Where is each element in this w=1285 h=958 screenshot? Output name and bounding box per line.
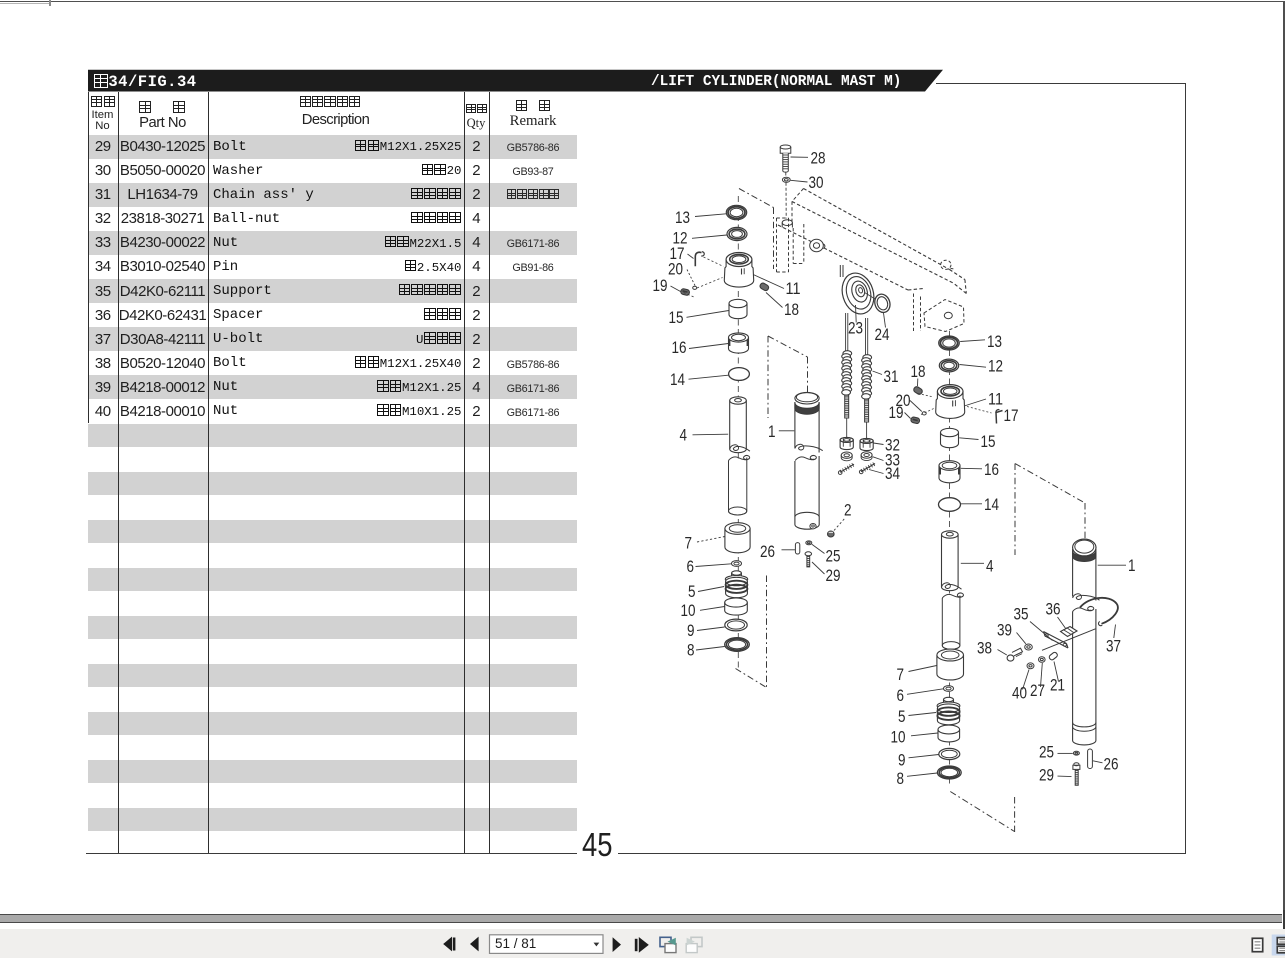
ring 6 left — [687, 558, 742, 576]
top window separator line — [0, 1, 1285, 3]
piston 5 right — [898, 697, 960, 726]
pin 19 right — [910, 417, 920, 425]
washer 39 — [997, 622, 1032, 651]
svg-text:26: 26 — [760, 543, 775, 561]
nut 40 — [1012, 663, 1034, 703]
svg-text:16: 16 — [984, 461, 999, 479]
bolt 28 — [780, 145, 825, 172]
pin 18 right — [911, 363, 926, 395]
ring 25 far right — [1039, 744, 1079, 762]
seal 9 left — [687, 619, 747, 640]
label 33 — [873, 452, 900, 470]
ring 10 right — [891, 725, 960, 746]
pin 34 left — [838, 463, 854, 474]
chain 31 right — [862, 318, 872, 440]
svg-text:4: 4 — [986, 558, 994, 576]
svg-text:26: 26 — [1104, 756, 1119, 774]
washer 12 right — [939, 358, 1003, 376]
axis left assembly — [737, 196, 739, 668]
oring 14 left — [670, 368, 749, 389]
single page layout icon — [1252, 938, 1262, 951]
svg-text:13: 13 — [987, 333, 1002, 351]
mast beam right end — [950, 270, 967, 294]
cup 7 left — [685, 523, 751, 553]
svg-text:19: 19 — [889, 404, 904, 422]
svg-text:35: 35 — [1014, 606, 1029, 624]
cup 16 right — [939, 461, 999, 483]
svg-text:14: 14 — [670, 371, 685, 389]
seal 8 right — [897, 766, 962, 788]
phantom boundary right top — [1015, 464, 1085, 556]
svg-text:4: 4 — [680, 427, 688, 445]
svg-text:8: 8 — [687, 642, 695, 660]
svg-text:36: 36 — [1046, 601, 1061, 619]
nut 32 right — [860, 438, 873, 450]
btn prev view (colored) — [660, 937, 671, 946]
piston rod 4 left — [680, 397, 750, 515]
svg-text:38: 38 — [977, 640, 992, 658]
svg-text:5: 5 — [898, 708, 906, 726]
mast beam front top edge — [792, 202, 954, 284]
mast beam top edge — [804, 189, 950, 270]
seal 8 left — [687, 638, 749, 660]
pin 20 right — [922, 412, 926, 415]
pin 34 right — [859, 462, 875, 473]
svg-text:24: 24 — [875, 326, 890, 344]
mast beam left end corner — [792, 189, 804, 222]
pin 18 left — [759, 282, 799, 319]
bolt 38 — [977, 640, 1023, 662]
mast beam front bolt — [810, 239, 825, 251]
plug 2 — [828, 502, 852, 538]
cotter pin 17 left — [670, 245, 705, 266]
svg-text:21: 21 — [1050, 677, 1065, 695]
label 19 right — [889, 404, 911, 422]
clamp 36 — [1046, 601, 1078, 637]
btn prev page — [470, 937, 479, 952]
svg-text:29: 29 — [826, 567, 841, 585]
bearing 13 left — [675, 205, 747, 227]
svg-text:6: 6 — [897, 687, 905, 705]
banner left text 图34/FIG.34 — [93, 73, 197, 91]
phantom boundary center — [768, 336, 808, 418]
mast beam front bottom edge — [778, 225, 923, 290]
svg-text:9: 9 — [898, 752, 906, 770]
phantom boundary bottom — [950, 792, 1014, 833]
svg-text:18: 18 — [784, 301, 799, 319]
seal 9 right — [898, 748, 960, 769]
svg-text:29: 29 — [1039, 767, 1054, 785]
chain anchor — [840, 265, 843, 277]
phantom line top left — [739, 189, 774, 270]
svg-text:10: 10 — [891, 729, 906, 747]
page frame lines — [936, 83, 1186, 84]
bolt 29 center — [805, 552, 841, 585]
svg-text:15: 15 — [981, 433, 996, 451]
pin 21 — [1048, 651, 1065, 694]
btn last page — [635, 939, 638, 951]
washer 33 right — [861, 452, 872, 461]
washer 12 left — [673, 227, 748, 247]
cup 7 right — [897, 649, 964, 684]
svg-text:18: 18 — [911, 363, 926, 381]
svg-text:37: 37 — [1106, 638, 1121, 656]
svg-text:51 / 81: 51 / 81 — [495, 936, 536, 951]
mast beam boss — [941, 260, 955, 270]
bushing 15 right — [941, 428, 996, 451]
svg-text:20: 20 — [668, 261, 683, 279]
label 20 right — [896, 392, 922, 412]
svg-text:7: 7 — [685, 535, 693, 553]
header column 3 — [297, 95, 363, 109]
support 35 — [1014, 606, 1096, 651]
svg-text:40: 40 — [1012, 685, 1027, 703]
svg-text:39: 39 — [997, 622, 1012, 640]
svg-text:15: 15 — [669, 309, 684, 327]
nut 11 left — [724, 253, 800, 299]
pin 19 left — [680, 288, 690, 296]
label 34 — [869, 465, 900, 483]
pulley 23 — [837, 269, 890, 337]
washer 33 left — [841, 452, 852, 461]
header column 2 — [136, 100, 188, 115]
washer 27 — [1030, 657, 1045, 700]
svg-text:31: 31 — [884, 368, 899, 386]
label 19 left — [653, 277, 681, 295]
page number 45 — [582, 826, 612, 864]
piston rod 4 right — [942, 531, 994, 650]
cotter pin 17 right — [967, 407, 1019, 426]
svg-text:12: 12 — [988, 358, 1003, 376]
dotted links 17/19 left — [684, 257, 724, 298]
ring 24 — [872, 292, 892, 344]
btn next view (disabled) — [691, 937, 702, 946]
bolt 28 axis — [785, 173, 787, 219]
bushing 15 left — [669, 299, 748, 327]
btn first page — [443, 937, 452, 952]
black title banner — [0, 0, 1285, 105]
svg-text:2: 2 — [844, 502, 852, 520]
btn next page — [613, 937, 621, 952]
svg-text:6: 6 — [687, 558, 695, 576]
svg-text:28: 28 — [811, 150, 826, 168]
label 20 left — [668, 261, 696, 288]
svg-text:27: 27 — [1030, 682, 1045, 700]
nut 11 right — [936, 385, 1003, 419]
mast bracket — [914, 294, 965, 332]
svg-text:14: 14 — [984, 496, 999, 514]
svg-text:8: 8 — [897, 770, 905, 788]
pin 26 far right — [1088, 749, 1119, 774]
banner right text — [651, 74, 901, 90]
table rows — [88, 135, 577, 159]
table header: column 1 — [89, 95, 117, 109]
chain 31 left — [842, 313, 852, 437]
svg-text:11: 11 — [988, 391, 1003, 409]
svg-text:1: 1 — [768, 423, 776, 441]
nut 32 left — [840, 437, 853, 449]
bolt 29 far right — [1039, 763, 1080, 786]
svg-text:5: 5 — [688, 583, 696, 601]
svg-text:11: 11 — [786, 280, 801, 298]
pin 20 left — [693, 286, 697, 289]
svg-text:34: 34 — [885, 465, 900, 483]
ring 10 left — [681, 598, 748, 620]
mast beam left end plate 1 — [777, 218, 789, 272]
svg-text:13: 13 — [675, 209, 690, 227]
svg-text:25: 25 — [1039, 744, 1054, 762]
header column 4 — [465, 104, 489, 116]
pin 26 center — [760, 543, 800, 561]
svg-text:23: 23 — [848, 320, 863, 338]
mast beam hole — [782, 220, 792, 228]
label 32 — [873, 437, 900, 455]
page combo box — [490, 935, 604, 954]
cup 16 left — [672, 333, 749, 357]
svg-text:9: 9 — [687, 622, 695, 640]
cylinder 1 center — [768, 392, 823, 529]
svg-text:25: 25 — [826, 548, 841, 566]
bottom toolbar — [0, 929, 1285, 958]
svg-text:19: 19 — [653, 277, 668, 295]
phantom boundary left bottom — [736, 576, 767, 688]
ring 25 center — [806, 541, 841, 566]
svg-text:1: 1 — [1128, 557, 1136, 575]
svg-text:7: 7 — [897, 666, 905, 684]
ring 6 right — [897, 686, 954, 705]
oring 14 right — [939, 496, 1000, 514]
u-bolt 37 — [1080, 598, 1121, 656]
bearing 13 right — [939, 333, 1002, 351]
table borders — [88, 92, 89, 423]
header column 5 — [512, 100, 554, 114]
mast beam left end plate 2 — [793, 224, 804, 264]
svg-text:16: 16 — [672, 339, 687, 357]
axis right assembly — [949, 331, 951, 786]
right scrollbar edge — [1283, 2, 1285, 929]
cylinder 1 right — [1073, 539, 1136, 745]
washer 30 — [782, 174, 823, 192]
horizontal scrollbar — [0, 914, 1282, 924]
piston 5 left — [688, 571, 748, 601]
label 31 — [873, 368, 899, 386]
svg-text:17: 17 — [1004, 407, 1019, 425]
continuous layout icon (selected, clipped) — [1272, 935, 1285, 956]
banner polygon — [88, 70, 943, 92]
svg-text:30: 30 — [809, 174, 824, 192]
svg-text:10: 10 — [681, 602, 696, 620]
dotted links right — [918, 394, 934, 415]
